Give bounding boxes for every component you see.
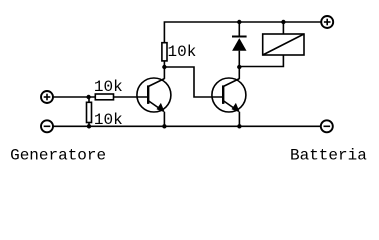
svg-text:Generatore: Generatore	[10, 146, 106, 164]
svg-text:Batteria: Batteria	[290, 146, 367, 164]
svg-text:10k: 10k	[94, 78, 123, 96]
svg-text:10k: 10k	[94, 111, 123, 129]
svg-text:10k: 10k	[168, 43, 197, 61]
